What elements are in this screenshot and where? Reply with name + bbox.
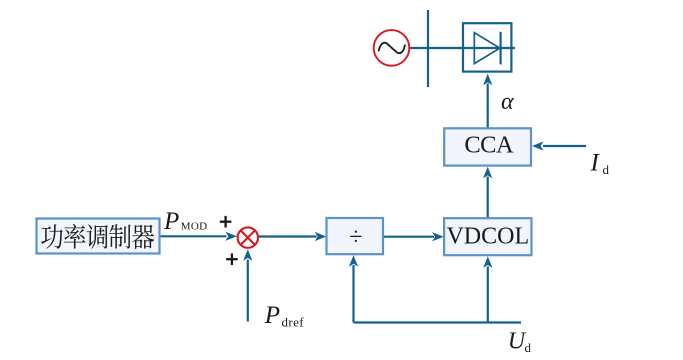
svg-text:P: P <box>264 302 280 329</box>
svg-text:MOD: MOD <box>181 220 208 232</box>
svg-text:d: d <box>603 162 610 177</box>
svg-text:÷: ÷ <box>349 224 362 250</box>
svg-text:d: d <box>525 340 532 355</box>
svg-text:α: α <box>501 89 514 115</box>
svg-text:VDCOL: VDCOL <box>446 224 529 250</box>
svg-text:CCA: CCA <box>464 132 514 159</box>
svg-text:dref: dref <box>282 315 305 330</box>
svg-text:P: P <box>163 208 179 235</box>
